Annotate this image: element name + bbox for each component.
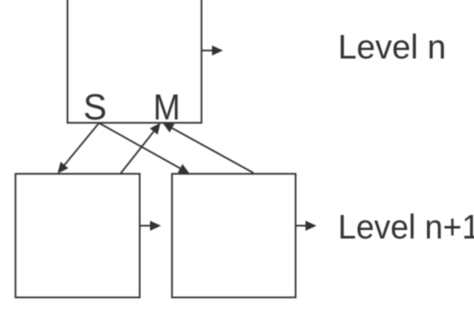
svg-text:Level n: Level n — [338, 29, 446, 67]
svg-text:Level n+1: Level n+1 — [338, 209, 474, 247]
svg-text:S: S — [83, 87, 107, 128]
svg-text:M: M — [153, 87, 180, 128]
